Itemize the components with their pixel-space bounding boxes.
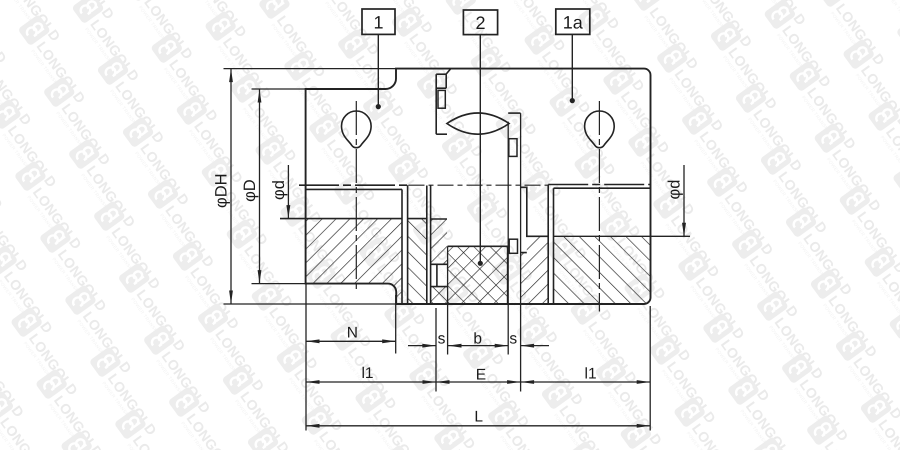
hub 1a teardrop centerline: [598, 101, 600, 312]
clearance box upper right: [509, 139, 517, 157]
dimension phid-right line: [683, 165, 685, 236]
svg-text:1: 1: [373, 13, 383, 33]
extension line E right: [520, 113, 522, 391]
hub 1 teardrop opening: [341, 111, 371, 148]
hub 1a tooth section hatch (center-left strip): [408, 219, 427, 304]
coupling outer silhouette: [306, 69, 651, 304]
svg-text:φDH: φDH: [213, 173, 231, 208]
gap wall line: [430, 186, 432, 305]
watermark tiles: [0, 412, 5, 450]
hub 1a bore left wall: [553, 188, 555, 304]
hub 1a teardrop opening: [585, 111, 615, 148]
hub 1 jaw front face: [435, 74, 437, 134]
callout leader 2: [479, 35, 481, 264]
extension line right face: [649, 306, 651, 431]
hub 1 left section hatch: [306, 219, 402, 304]
hub 1 jaw step top: [436, 73, 446, 75]
svg-text:N: N: [347, 324, 358, 341]
dimension L: [306, 425, 650, 427]
extension line b left: [447, 246, 449, 354]
hub 1a tooth top edge: [408, 218, 427, 220]
hub 1 body end face: [401, 189, 403, 304]
svg-text:φd: φd: [665, 180, 683, 200]
gap wall right: [547, 185, 549, 305]
svg-text:l1: l1: [585, 366, 597, 383]
callout leader 1: [377, 34, 379, 106]
clearance box lower right: [509, 239, 517, 253]
spider notch bottom: [431, 286, 447, 288]
dimension phiD extension top: [252, 88, 306, 90]
hub 1 jaw section hatch (center strip): [431, 219, 447, 264]
hub 1a jaw front ledge: [508, 112, 520, 114]
hub 1 jaw top edge: [431, 218, 447, 220]
dimension s left outside arrow: [408, 345, 436, 347]
clearance box upper left: [438, 90, 445, 108]
dimension phid-left line: [287, 165, 289, 219]
hub 1 jaw chamfer: [446, 69, 451, 74]
spider right face: [507, 246, 509, 304]
dimension phiD line: [259, 89, 261, 284]
hub 1 jaw step right edge: [445, 74, 447, 88]
svg-text:2: 2: [475, 13, 485, 33]
spider tooth lens: [447, 113, 509, 134]
svg-text:b: b: [473, 330, 482, 347]
callout box 2: [463, 10, 497, 35]
svg-text:1a: 1a: [563, 13, 584, 33]
callout leader 1a: [571, 34, 573, 100]
spider notch inner wall: [436, 264, 438, 286]
svg-text:φd: φd: [270, 180, 288, 200]
hub 1a bore line: [554, 187, 651, 189]
dimension phiDH extension top: [224, 68, 397, 70]
extension line b right: [507, 122, 509, 355]
hub 1a tooth right face: [426, 186, 428, 305]
spider 2 cross-hatch main block: [448, 246, 508, 304]
spider notch top: [431, 263, 447, 265]
hub 1 teardrop centerline: [355, 101, 357, 292]
callout box 1a: [556, 9, 590, 34]
svg-text:s: s: [438, 330, 446, 347]
hub 1 jaw bottom ledge: [436, 133, 447, 135]
hub 1 tooth outline right side: [521, 187, 548, 252]
dimension phiDH extension bottom: [224, 303, 397, 305]
svg-text:s: s: [509, 330, 517, 347]
dimension phiDH line: [230, 69, 232, 304]
dimension s right outside arrow: [521, 345, 549, 347]
svg-text:l1: l1: [361, 365, 373, 382]
centerline across spider gap: [409, 184, 549, 186]
dimension l1 left: [306, 381, 436, 383]
hub 1a keyway line: [548, 184, 650, 186]
dimension N: [306, 340, 396, 342]
extension line left face: [305, 284, 307, 431]
hub 1 bore surface line: [280, 218, 402, 220]
hub 1 tooth section hatch (center-right strip): [521, 236, 548, 304]
svg-text:E: E: [476, 366, 486, 383]
extension line N right: [395, 295, 397, 354]
dimension E: [436, 381, 521, 383]
hub 1 keyway line: [299, 184, 408, 186]
extension line E left: [435, 308, 437, 392]
svg-text:L: L: [474, 408, 483, 425]
hub 1a bore surface line (extends right as phid extension): [554, 235, 691, 237]
hub 1a right section hatch: [554, 236, 651, 304]
hub 1a tooth face: [407, 185, 409, 304]
dimension l1 right: [521, 381, 651, 383]
dimension b: [448, 345, 508, 347]
svg-text:φD: φD: [241, 179, 259, 202]
hub 1 jaw step bottom: [436, 87, 446, 89]
hub 1 bore line: [306, 188, 402, 190]
spider top edge: [448, 245, 508, 247]
spider 2 cross-hatch small block under notch: [431, 287, 447, 304]
dimension phiD extension bottom: [252, 283, 306, 285]
callout box 1: [362, 9, 395, 34]
